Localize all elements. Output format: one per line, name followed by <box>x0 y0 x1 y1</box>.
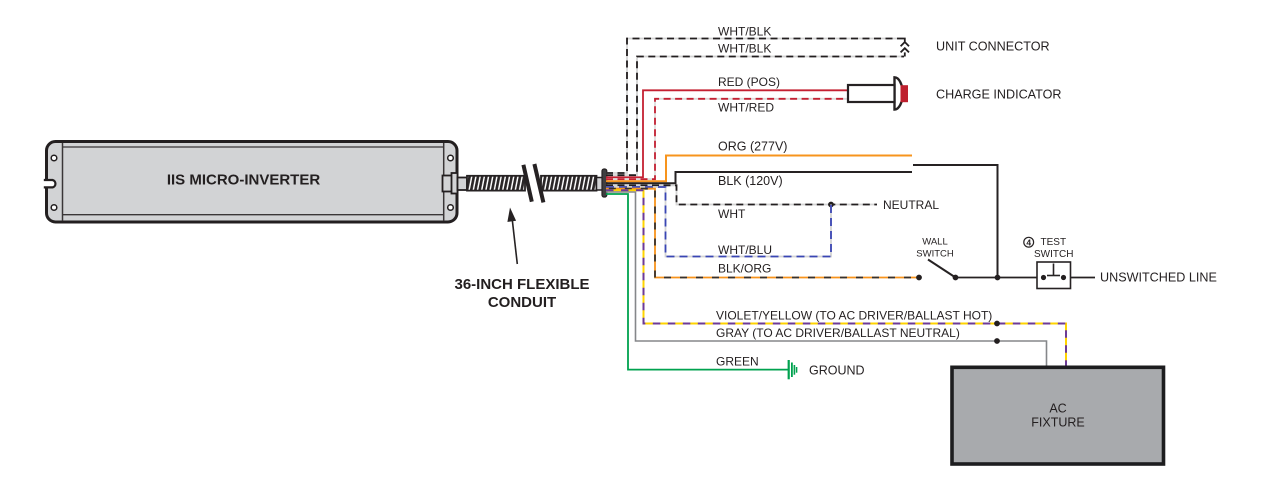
wire RED (POS) <box>606 90 848 177</box>
svg-text:ORG (277V): ORG (277V) <box>718 140 787 154</box>
screw top-right <box>448 155 454 161</box>
wire WHT/BLK 2 <box>606 57 904 176</box>
svg-text:SWITCH: SWITCH <box>1034 249 1073 260</box>
svg-text:AC: AC <box>1049 401 1066 415</box>
svg-text:GRAY (TO AC DRIVER/BALLAST NEU: GRAY (TO AC DRIVER/BALLAST NEUTRAL) <box>716 326 960 340</box>
svg-text:BLK/ORG: BLK/ORG <box>718 262 771 276</box>
unit connector symbol <box>901 39 909 57</box>
ground symbol <box>789 360 797 379</box>
wire GRAY <box>606 192 1047 369</box>
wire WHT neutral <box>606 185 877 204</box>
IIS micro-inverter enclosure U1 <box>47 142 458 223</box>
AC fixture <box>952 367 1164 464</box>
node feed junction <box>995 275 1001 281</box>
svg-text:WHT: WHT <box>718 207 746 221</box>
wire ORG (277V) <box>606 156 912 182</box>
wall switch SW1 <box>928 260 1037 281</box>
svg-text:IIS MICRO-INVERTER: IIS MICRO-INVERTER <box>167 172 321 189</box>
svg-text:GREEN: GREEN <box>716 355 759 369</box>
svg-text:SWITCH: SWITCH <box>916 249 954 260</box>
svg-text:NEUTRAL: NEUTRAL <box>883 198 939 212</box>
svg-text:WHT/RED: WHT/RED <box>718 101 774 115</box>
callout arrow to conduit <box>507 208 517 265</box>
test switch SW2 <box>1037 262 1095 289</box>
conduit break gap <box>524 164 544 202</box>
label WALL SWITCH <box>916 237 954 260</box>
node violet/yellow junction <box>994 321 1000 327</box>
wire WHT/RED <box>606 99 849 179</box>
conduit fitting at inverter side <box>443 173 468 194</box>
node neutral junction <box>828 202 834 208</box>
node gray junction <box>994 338 1000 344</box>
charge indicator lamp <box>848 77 908 109</box>
flexible conduit segment A <box>467 176 525 191</box>
svg-text:RED (POS): RED (POS) <box>718 75 780 89</box>
svg-text:WHT/BLK: WHT/BLK <box>718 42 771 56</box>
wire VIOLET/YELLOW <box>606 190 1066 369</box>
svg-text:UNSWITCHED LINE: UNSWITCHED LINE <box>1100 271 1217 285</box>
screw bottom-left <box>51 205 57 211</box>
mounting notch on left edge <box>44 180 56 187</box>
wire BLK/ORG <box>606 189 919 278</box>
supply feed line <box>913 165 998 278</box>
svg-text:CHARGE INDICATOR: CHARGE INDICATOR <box>936 88 1061 102</box>
flexible conduit segment B <box>541 176 597 191</box>
svg-text:FIXTURE: FIXTURE <box>1031 416 1084 430</box>
svg-text:TEST: TEST <box>1041 237 1067 248</box>
wire WHT/BLK 1 <box>606 39 903 174</box>
svg-text:BLK (120V): BLK (120V) <box>718 174 783 188</box>
node BLK/ORG end <box>916 275 922 281</box>
wire WHT/BLU <box>606 187 831 257</box>
svg-text:GROUND: GROUND <box>809 364 865 378</box>
label 4 TEST SWITCH <box>1024 237 1074 260</box>
break mark 1 <box>523 165 531 202</box>
svg-text:WALL: WALL <box>922 237 948 248</box>
svg-text:VIOLET/YELLOW (TO AC DRIVER/BA: VIOLET/YELLOW (TO AC DRIVER/BALLAST HOT) <box>716 309 992 323</box>
label 36-INCH FLEXIBLE CONDUIT <box>454 276 589 311</box>
screw top-left <box>51 155 57 161</box>
svg-text:UNIT CONNECTOR: UNIT CONNECTOR <box>936 40 1050 54</box>
svg-text:4: 4 <box>1026 237 1031 247</box>
svg-text:WHT/BLK: WHT/BLK <box>718 25 771 39</box>
wire BLK (120V) <box>606 172 912 183</box>
svg-text:WHT/BLU: WHT/BLU <box>718 243 772 257</box>
screw bottom-right <box>448 205 454 211</box>
wire GREEN <box>606 194 788 370</box>
svg-text:CONDUIT: CONDUIT <box>488 294 556 311</box>
break mark 2 <box>534 164 543 202</box>
conduit fitting at wire end <box>597 169 607 197</box>
svg-text:36-INCH FLEXIBLE: 36-INCH FLEXIBLE <box>454 276 589 293</box>
